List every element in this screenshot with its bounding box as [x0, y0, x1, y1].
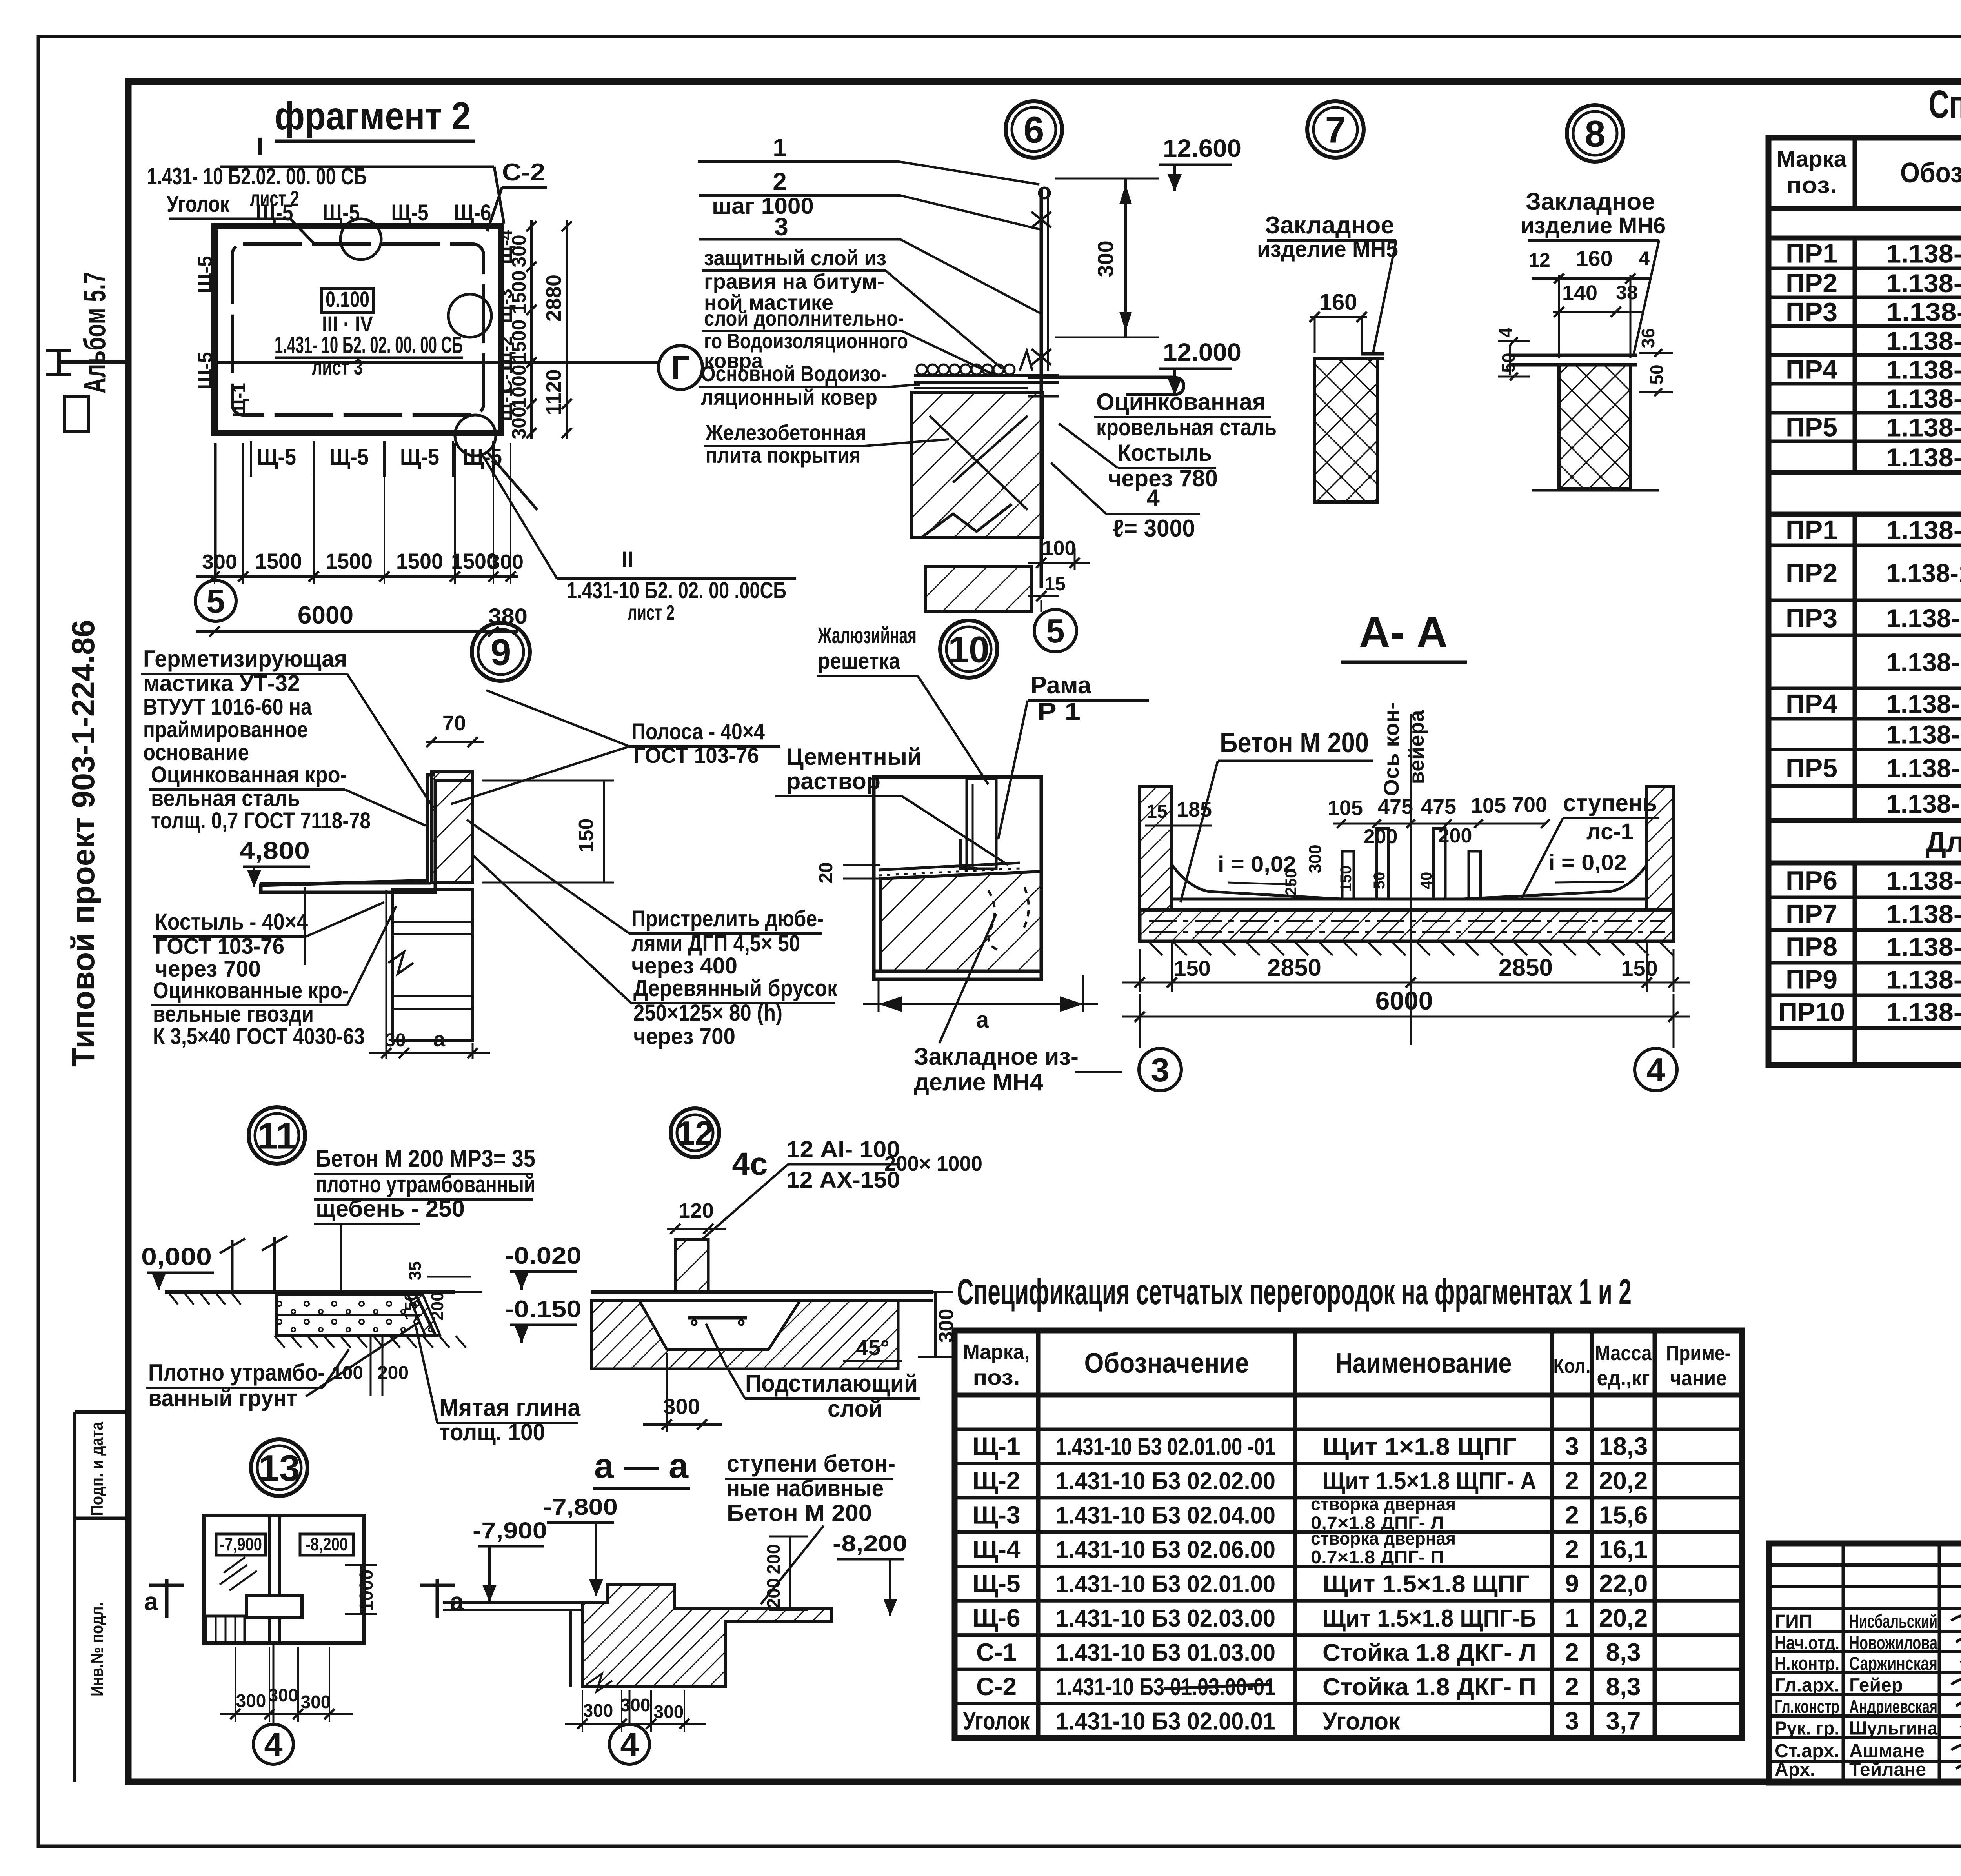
svg-text:Спецификация сетчатых перегоро: Спецификация сетчатых перегородок на фра…: [957, 1272, 1632, 1312]
svg-text:Закладное: Закладное: [1265, 212, 1394, 239]
svg-text:-7,900: -7,900: [220, 1534, 262, 1554]
svg-text:1.138-10; Вып.1: 1.138-10; Вып.1: [1886, 326, 1961, 355]
svg-text:лист 3: лист 3: [312, 355, 363, 379]
размер 150 узла 9: [603, 781, 605, 883]
строка таблицы: [1768, 928, 1961, 932]
svg-text:105: 105: [1471, 794, 1506, 817]
svg-text:2: 2: [1565, 1638, 1579, 1666]
отметка -7.900 в рамке: [216, 1534, 266, 1555]
svg-text:150: 150: [575, 819, 598, 853]
svg-text:ванный грунт: ванный грунт: [148, 1385, 297, 1411]
план узла 13: [204, 1516, 364, 1643]
svg-text:1: 1: [1565, 1604, 1579, 1632]
svg-text:20,2: 20,2: [1599, 1604, 1648, 1632]
svg-text:Деревянный брусок: Деревянный брусок: [633, 975, 838, 1001]
svg-text:300: 300: [1306, 844, 1325, 873]
узел 12: [671, 1108, 719, 1157]
svg-text:-0.150: -0.150: [505, 1296, 582, 1322]
svg-text:3: 3: [1565, 1432, 1579, 1461]
svg-text:Тейлане: Тейлане: [1849, 1760, 1926, 1780]
svg-text:100: 100: [1042, 537, 1076, 560]
svg-text:1.431-10 Б3 01.03.00-01: 1.431-10 Б3 01.03.00-01: [1056, 1674, 1275, 1701]
svg-text:40: 40: [1418, 872, 1435, 890]
svg-text:а: а: [433, 1028, 446, 1051]
svg-text:6000: 6000: [1375, 986, 1433, 1015]
svg-text:Марка: Марка: [1777, 146, 1847, 172]
svg-text:Щ-5: Щ-5: [400, 444, 439, 470]
svg-text:Типовой проект 903-1-224.86: Типовой проект 903-1-224.86: [65, 620, 101, 1067]
svg-text:С-1: С-1: [976, 1638, 1017, 1666]
svg-text:1500: 1500: [255, 549, 302, 573]
svg-text:1.138- 10; Вып.1: 1.138- 10; Вып.1: [1886, 720, 1961, 749]
svg-text:Ось кон-: Ось кон-: [1380, 702, 1403, 796]
svg-text:200: 200: [428, 1292, 447, 1320]
строка Щ-3: [955, 1530, 1742, 1534]
svg-text:300: 300: [236, 1690, 266, 1711]
svg-text:Мятая глина: Мятая глина: [439, 1394, 580, 1421]
костыль полоса: [1028, 376, 1173, 379]
svg-text:ВТУУТ 1016-60 на: ВТУУТ 1016-60 на: [143, 694, 312, 720]
svg-text:шаг 1000: шаг 1000: [712, 193, 814, 219]
svg-text:2: 2: [1565, 1501, 1579, 1529]
строка таблицы: [1768, 819, 1961, 822]
svg-text:щебень - 250: щебень - 250: [316, 1195, 465, 1222]
svg-text:1.138- 10; Вып.1: 1.138- 10; Вып.1: [1886, 690, 1961, 719]
таблица спецификации перегородок: [955, 1330, 1742, 1738]
svg-text:1.138-10; Вып.1: 1.138-10; Вып.1: [1886, 413, 1961, 442]
svg-text:С-2: С-2: [502, 159, 545, 186]
svg-text:Обозначение: Обозначение: [1900, 157, 1961, 189]
строка таблицы: [1768, 717, 1961, 721]
стойка ограждения: [1040, 188, 1043, 588]
svg-text:12 АХ-150: 12 АХ-150: [786, 1167, 900, 1193]
строка Щ-6: [955, 1633, 1742, 1637]
svg-text:Щ-4: Щ-4: [972, 1535, 1021, 1563]
svg-text:5: 5: [1046, 613, 1064, 650]
стена ниже узла 9: [392, 890, 473, 1041]
приямок узла 12: [591, 1301, 898, 1369]
svg-text:5: 5: [206, 583, 225, 620]
проем узла 10: [874, 777, 1041, 979]
лоток А-А: левая стенка: [1140, 787, 1172, 910]
грунт под днищем: [1149, 942, 1162, 955]
строка таблицы: [1768, 471, 1961, 475]
svg-text:300: 300: [620, 1695, 651, 1715]
ось 5 узла 6: [1041, 600, 1042, 612]
svg-text:4: 4: [264, 1726, 282, 1763]
svg-text:1.138-10; Вып.1: 1.138-10; Вып.1: [1886, 866, 1961, 895]
svg-text:Щ-5: Щ-5: [972, 1570, 1020, 1598]
svg-text:Наименование: Наименование: [1335, 1348, 1512, 1379]
стена над землей (обрыв): [231, 1240, 234, 1292]
svg-text:1.431-10 Б3 02.06.00: 1.431-10 Б3 02.06.00: [1056, 1536, 1275, 1563]
svg-text:Закладное из-: Закладное из-: [914, 1043, 1079, 1070]
осевые линии в плите: [1149, 920, 1665, 922]
svg-text:300: 300: [935, 1309, 958, 1343]
svg-text:4: 4: [1495, 328, 1516, 338]
строка таблицы: [1768, 411, 1961, 415]
svg-text:раствор: раствор: [786, 768, 880, 794]
строка таблицы: [1768, 267, 1961, 270]
svg-text:Андриевская: Андриевская: [1849, 1697, 1937, 1718]
svg-text:475: 475: [1378, 795, 1413, 819]
размеры 300 300 300 сечения а-а: [565, 1723, 706, 1725]
svg-text:ℓ= 3000: ℓ= 3000: [1113, 515, 1195, 542]
размеры 100 и 15: [1041, 557, 1042, 570]
svg-text:20: 20: [816, 862, 837, 883]
узел 10: [940, 620, 997, 678]
отметка 0.100: [321, 289, 374, 312]
svg-text:Щ-3: Щ-3: [972, 1501, 1020, 1529]
svg-text:гравия на битум-: гравия на битум-: [704, 270, 884, 293]
строка Щ-4: [955, 1565, 1742, 1568]
svg-text:200: 200: [763, 1578, 784, 1609]
пластина узла 8: [1510, 354, 1637, 357]
svg-text:Оцинкованная: Оцинкованная: [1096, 389, 1266, 415]
svg-text:ПР6: ПР6: [1786, 866, 1837, 895]
рама окна: [967, 779, 996, 869]
узловой кружок на плане (право): [448, 294, 491, 337]
svg-text:ГОСТ 103-76: ГОСТ 103-76: [155, 933, 284, 959]
svg-text:Кол.: Кол.: [1554, 1355, 1591, 1377]
строка Щ-2: [955, 1496, 1742, 1499]
svg-text:1.138-10; Вып.1: 1.138-10; Вып.1: [1886, 998, 1961, 1027]
svg-text:200: 200: [763, 1544, 784, 1574]
секция таблицы: Для t° -40°С: [1768, 470, 1961, 475]
svg-text:Инв.№ подл.: Инв.№ подл.: [87, 1602, 107, 1696]
svg-text:2880: 2880: [542, 275, 566, 322]
svg-text:250: 250: [1282, 870, 1300, 896]
svg-text:300: 300: [654, 1701, 684, 1722]
svg-text:ные набивные: ные набивные: [727, 1475, 884, 1501]
svg-text:1500: 1500: [326, 549, 373, 573]
строка Щ-1: [955, 1462, 1742, 1465]
svg-text:1.138-10; Вып.1: 1.138-10; Вып.1: [1886, 516, 1961, 545]
svg-text:Стойка 1.8 ДКГ- П: Стойка 1.8 ДКГ- П: [1322, 1674, 1536, 1701]
svg-text:200: 200: [1438, 824, 1472, 847]
svg-text:1.138- 10; Вып.1: 1.138- 10; Вып.1: [1886, 789, 1961, 818]
размеры 300 300 300 узла 13: [220, 1713, 353, 1715]
svg-text:Щит 1×1.8 ЩПГ: Щит 1×1.8 ЩПГ: [1322, 1434, 1517, 1461]
svg-text:1.431-10 Б3 02.01.00: 1.431-10 Б3 02.01.00: [1056, 1571, 1275, 1598]
узел 8: [1567, 105, 1623, 162]
узел 6: [1006, 101, 1062, 158]
svg-text:ПР5: ПР5: [1786, 753, 1837, 783]
svg-text:защитный слой из: защитный слой из: [704, 246, 886, 270]
svg-text:1.431-10 Б3 02.00.01: 1.431-10 Б3 02.00.01: [1056, 1708, 1275, 1735]
svg-text:Н.контр.: Н.контр.: [1775, 1654, 1839, 1674]
строка таблицы: [1768, 994, 1961, 997]
svg-text:9: 9: [491, 631, 511, 673]
svg-text:1500: 1500: [508, 270, 530, 314]
svg-text:300: 300: [488, 551, 524, 573]
svg-text:1.138-10; Вып.1: 1.138-10; Вып.1: [1886, 900, 1961, 929]
svg-text:8: 8: [1585, 113, 1606, 155]
строка таблицы: [1768, 634, 1961, 637]
строка таблицы: [1768, 353, 1961, 357]
svg-text:-8,200: -8,200: [833, 1531, 907, 1556]
svg-text:1.138- 10; Вып.1: 1.138- 10; Вып.1: [1886, 648, 1961, 677]
svg-text:9: 9: [1565, 1570, 1579, 1598]
svg-text:1.431- 10 Б2. 02. 00. 00 СБ: 1.431- 10 Б2. 02. 00. 00 СБ: [275, 332, 463, 358]
svg-text:а — а: а — а: [594, 1447, 689, 1486]
svg-text:15,6: 15,6: [1599, 1501, 1648, 1529]
svg-text:1.431-10 Б3 02.01.00 -01: 1.431-10 Б3 02.01.00 -01: [1056, 1434, 1275, 1461]
svg-text:вельные гвозди: вельные гвозди: [153, 1001, 314, 1027]
svg-text:150: 150: [401, 1292, 420, 1320]
svg-text:-7,800: -7,800: [543, 1494, 618, 1520]
svg-text:16,1: 16,1: [1599, 1535, 1648, 1563]
размерная цепочка снизу: [196, 575, 518, 578]
svg-text:Щ-2: Щ-2: [972, 1467, 1020, 1495]
svg-text:0,000: 0,000: [141, 1243, 212, 1270]
svg-text:45°: 45°: [856, 1335, 890, 1360]
размер 300 справа: [934, 1292, 937, 1357]
размер 20 узла 10: [843, 864, 880, 866]
svg-text:200× 1000: 200× 1000: [884, 1152, 982, 1175]
svg-text:Г: Г: [671, 349, 690, 387]
svg-text:300: 300: [583, 1700, 613, 1721]
svg-text:вельная сталь: вельная сталь: [151, 786, 300, 811]
svg-text:ПР1: ПР1: [1786, 515, 1837, 545]
ось 4 сечения а-а: [629, 1690, 631, 1724]
svg-text:0.100: 0.100: [326, 287, 369, 311]
svg-text:Шульгина: Шульгина: [1849, 1718, 1937, 1739]
svg-text:-7,900: -7,900: [473, 1518, 547, 1543]
стенка узла 9: [431, 771, 473, 883]
svg-text:50: 50: [1371, 872, 1388, 890]
svg-text:Саржинская: Саржинская: [1849, 1654, 1937, 1674]
svg-text:1.431-10 Б2. 02. 00 .00СБ: 1.431-10 Б2. 02. 00 .00СБ: [567, 578, 786, 603]
svg-text:ПР2: ПР2: [1786, 558, 1837, 588]
строка таблицы: [1768, 324, 1961, 328]
svg-text:1.431-10 Б3 02.04.00: 1.431-10 Б3 02.04.00: [1056, 1502, 1275, 1529]
svg-text:Рук. гр.: Рук. гр.: [1775, 1718, 1839, 1739]
svg-text:лями ДГП 4,5× 50: лями ДГП 4,5× 50: [631, 931, 800, 956]
svg-text:ПР2: ПР2: [1786, 268, 1837, 298]
svg-text:ПР8: ПР8: [1786, 932, 1837, 962]
строка таблицы: [1768, 896, 1961, 899]
строка таблицы: [1768, 687, 1961, 690]
узловой кружок на плане (верх): [340, 219, 381, 260]
svg-text:Пристрелить дюбе-: Пристрелить дюбе-: [631, 906, 824, 932]
svg-text:ступени бетон-: ступени бетон-: [727, 1450, 895, 1477]
строка таблицы: [1768, 440, 1961, 443]
svg-text:ляционный ковер: ляционный ковер: [701, 385, 877, 409]
svg-text:13: 13: [258, 1447, 300, 1489]
размер 1000: [360, 1565, 362, 1614]
svg-text:35: 35: [406, 1261, 425, 1281]
svg-text:4: 4: [1146, 485, 1160, 511]
кровля с гравием: [917, 364, 927, 375]
svg-text:кровельная сталь: кровельная сталь: [1096, 414, 1277, 440]
svg-text:200: 200: [1364, 825, 1398, 848]
svg-text:изделие МН6: изделие МН6: [1521, 213, 1666, 238]
строка таблицы: [1768, 961, 1961, 965]
svg-text:2: 2: [1565, 1672, 1579, 1701]
строка Щ-5: [955, 1599, 1742, 1603]
секция таблицы: Для t° - 20°С; - 30°С; - 40°С: [1768, 818, 1961, 823]
размер 6000 А-А: [1122, 1016, 1690, 1018]
фартук узла 9: [261, 775, 473, 892]
svg-text:1.138-10; Вып.1: 1.138-10; Вып.1: [1886, 355, 1961, 384]
svg-text:-8,200: -8,200: [306, 1534, 348, 1554]
svg-text:300: 300: [508, 235, 530, 267]
svg-text:1.138-10; Вып.1°: 1.138-10; Вып.1°: [1886, 559, 1961, 588]
svg-text:3: 3: [774, 213, 788, 241]
svg-text:Щ-6: Щ-6: [972, 1604, 1020, 1632]
svg-text:Бетон М 200 МР3= 35: Бетон М 200 МР3= 35: [316, 1145, 535, 1172]
подоконник: [879, 863, 1020, 870]
строка таблицы: [1768, 544, 1961, 547]
svg-text:Щ-5: Щ-5: [257, 444, 296, 470]
svg-text:-0.020: -0.020: [505, 1243, 582, 1269]
svg-text:Основной Водоизо-: Основной Водоизо-: [701, 361, 887, 386]
svg-text:ПР3: ПР3: [1786, 297, 1837, 327]
svg-text:фрагмент 2: фрагмент 2: [275, 94, 471, 138]
svg-text:22,0: 22,0: [1599, 1570, 1648, 1598]
svg-text:Уголок: Уголок: [963, 1707, 1030, 1735]
svg-text:2: 2: [1565, 1535, 1579, 1563]
svg-text:150: 150: [1621, 956, 1657, 981]
svg-text:300: 300: [1093, 240, 1118, 277]
svg-text:праймированное: праймированное: [143, 717, 308, 742]
svg-text:толщ. 0,7 ГОСТ 7118-78: толщ. 0,7 ГОСТ 7118-78: [151, 808, 371, 833]
оси 3 и 4: [1139, 1048, 1181, 1091]
svg-text:поз.: поз.: [973, 1366, 1020, 1389]
svg-text:Щ-5: Щ-5: [329, 444, 369, 470]
svg-text:160: 160: [1576, 246, 1612, 271]
svg-text:Плотно утрамбо-: Плотно утрамбо-: [148, 1359, 325, 1386]
svg-text:100: 100: [332, 1363, 363, 1383]
svg-text:плита покрытия: плита покрытия: [706, 443, 860, 468]
svg-text:Ашмане: Ашмане: [1849, 1741, 1925, 1761]
svg-text:1500: 1500: [396, 549, 443, 573]
svg-text:ПР7: ПР7: [1786, 899, 1837, 929]
лоток А-А: днище (штриховка): [1140, 910, 1674, 941]
svg-text:Нисбальский: Нисбальский: [1849, 1611, 1937, 1632]
svg-text:Костыль: Костыль: [1118, 440, 1212, 466]
svg-text:250×125× 80 (h): 250×125× 80 (h): [633, 1000, 782, 1026]
svg-text:ПР9: ПР9: [1786, 965, 1837, 995]
svg-text:4: 4: [1646, 1052, 1665, 1089]
svg-text:6: 6: [1024, 109, 1044, 151]
svg-text:лс-1: лс-1: [1586, 819, 1634, 844]
размерная цепочка А-А: [1139, 949, 1141, 992]
svg-text:8,3: 8,3: [1606, 1672, 1641, 1701]
svg-text:1.138- 10; Вып.1: 1.138- 10; Вып.1: [1886, 754, 1961, 783]
svg-text:18,3: 18,3: [1599, 1432, 1648, 1461]
ось 5 (фрагмент): [215, 443, 217, 580]
svg-text:1: 1: [773, 133, 787, 162]
строка С-1: [955, 1668, 1742, 1671]
svg-text:Гл.констр: Гл.констр: [1775, 1697, 1839, 1718]
узел 9: [472, 623, 530, 681]
svg-text:Щ-5: Щ-5: [323, 200, 360, 226]
svg-text:1.138-10; Вып.1: 1.138-10; Вып.1: [1886, 239, 1961, 268]
svg-text:1500: 1500: [508, 319, 530, 363]
svg-text:1.431-10 Б3 01.03.00: 1.431-10 Б3 01.03.00: [1056, 1639, 1275, 1666]
размерные цепочки справа: [530, 220, 533, 439]
линия земли узла 11: [165, 1290, 455, 1294]
svg-text:ГОСТ 103-76: ГОСТ 103-76: [633, 743, 759, 768]
svg-text:4: 4: [620, 1726, 639, 1763]
svg-text:300: 300: [508, 406, 530, 439]
svg-text:делие МН4: делие МН4: [914, 1069, 1044, 1096]
svg-text:105: 105: [1328, 796, 1363, 820]
ступени на плане: [206, 1616, 245, 1643]
svg-text:15: 15: [1146, 801, 1167, 822]
svg-text:слой дополнительно-: слой дополнительно-: [704, 307, 904, 330]
svg-text:Бетон М 200: Бетон М 200: [1220, 727, 1369, 759]
ось Г: [659, 346, 702, 389]
svg-text:7: 7: [1325, 109, 1346, 151]
строка таблицы: [1768, 1026, 1961, 1030]
svg-text:I: I: [256, 132, 264, 160]
svg-text:185: 185: [1177, 798, 1212, 821]
svg-text:Обозначение: Обозначение: [1084, 1348, 1249, 1379]
svg-text:а: а: [144, 1587, 158, 1616]
стойка узла 12: [675, 1239, 708, 1292]
svg-text:Закладное: Закладное: [1526, 188, 1655, 215]
ось 4 узла 13: [273, 1645, 275, 1724]
svg-text:вейера: вейера: [1405, 710, 1428, 784]
плита слева сечения а-а: [443, 1601, 582, 1604]
svg-text:Щ-1: Щ-1: [972, 1432, 1020, 1461]
svg-text:700: 700: [1512, 793, 1547, 817]
бортики канала конвейера: [1342, 851, 1354, 899]
svg-text:8,3: 8,3: [1606, 1638, 1641, 1666]
отметка 12.600: [1159, 164, 1232, 166]
svg-text:Гейер: Гейер: [1849, 1675, 1903, 1696]
svg-text:1.431-10 Б3 02.02.00: 1.431-10 Б3 02.02.00: [1056, 1468, 1275, 1495]
svg-text:плотно утрамбованный: плотно утрамбованный: [316, 1171, 535, 1197]
svg-text:0.7×1.8 ДПГ- П: 0.7×1.8 ДПГ- П: [1311, 1547, 1444, 1567]
svg-text:Арх.: Арх.: [1775, 1760, 1815, 1780]
размер 300: [1124, 178, 1127, 337]
строка таблицы: [1768, 296, 1961, 299]
svg-text:3,7: 3,7: [1606, 1707, 1641, 1735]
узел 13: [251, 1439, 307, 1496]
svg-text:i = 0,02: i = 0,02: [1548, 850, 1627, 875]
svg-text:чание: чание: [1670, 1367, 1727, 1390]
сечение а-а: ступенчатая стена: [582, 1585, 831, 1687]
svg-text:Марка,: Марка,: [963, 1340, 1030, 1364]
svg-text:1.138-10; Вып.1: 1.138-10; Вып.1: [1886, 443, 1961, 472]
svg-text:1.138-10 Вып.1: 1.138-10 Вып.1: [1886, 298, 1961, 327]
svg-text:1.431- 10 Б2.02. 00. 00 СБ: 1.431- 10 Б2.02. 00. 00 СБ: [147, 163, 367, 189]
нижний блок узла 6: [926, 567, 1031, 612]
метка сечения Та: [436, 1579, 439, 1618]
svg-text:3: 3: [1565, 1707, 1579, 1735]
пустая строка: [955, 1428, 1742, 1431]
svg-text:12.600: 12.600: [1163, 134, 1241, 162]
svg-text:2: 2: [1565, 1467, 1579, 1495]
плита пола узла 11: [277, 1294, 435, 1335]
svg-text:1.431-10 Б3 02.03.00: 1.431-10 Б3 02.03.00: [1056, 1605, 1275, 1632]
отметка 12.000: [1159, 368, 1232, 370]
строка С-2: [955, 1702, 1742, 1705]
svg-text:слой: слой: [828, 1396, 882, 1422]
svg-text:решетка: решетка: [818, 648, 900, 674]
svg-text:II: II: [621, 547, 633, 571]
svg-text:С-2: С-2: [976, 1672, 1017, 1701]
размер 6000: [196, 630, 518, 633]
svg-text:через 780: через 780: [1108, 465, 1218, 491]
svg-text:ступень: ступень: [1563, 790, 1657, 817]
svg-text:38: 38: [1616, 282, 1638, 304]
svg-text:140: 140: [1562, 281, 1597, 305]
